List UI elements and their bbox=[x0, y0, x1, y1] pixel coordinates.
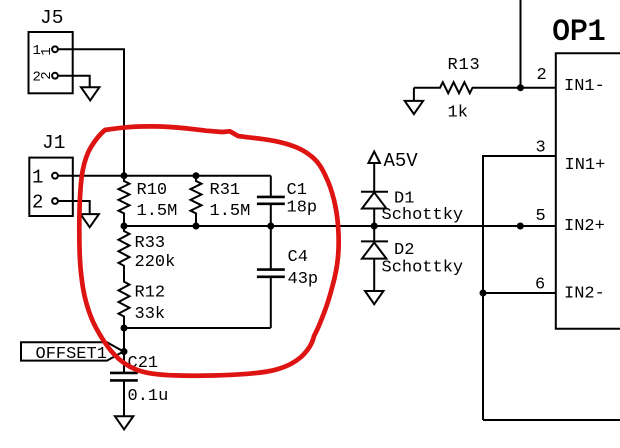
svg-text:J5: J5 bbox=[40, 7, 63, 29]
wire pin6 IN2- bbox=[483, 292, 556, 294]
svg-text:C1: C1 bbox=[287, 181, 307, 200]
svg-text:R33: R33 bbox=[135, 234, 166, 253]
resistor R33 bbox=[119, 226, 130, 278]
svg-text:220k: 220k bbox=[135, 253, 176, 272]
svg-text:IN2+: IN2+ bbox=[564, 217, 605, 236]
svg-text:1.5M: 1.5M bbox=[210, 202, 251, 221]
wire node to C21 bbox=[123, 328, 125, 373]
svg-text:3: 3 bbox=[536, 139, 546, 158]
svg-text:1k: 1k bbox=[448, 104, 468, 123]
wire J1 pin1 to node bbox=[59, 175, 124, 177]
svg-text:2: 2 bbox=[32, 192, 43, 214]
svg-text:R13: R13 bbox=[448, 56, 481, 75]
ground at R13 left bbox=[405, 88, 423, 114]
svg-text:1: 1 bbox=[39, 47, 55, 55]
capacitor C4 bbox=[257, 226, 285, 328]
junction dots bbox=[121, 172, 128, 179]
svg-text:A5V: A5V bbox=[384, 150, 419, 172]
capacitor C1 bbox=[257, 176, 285, 226]
wire J5 pin2 to ground bbox=[59, 76, 90, 88]
wire bottom loop y=328 bbox=[124, 327, 271, 329]
svg-text:6: 6 bbox=[535, 276, 545, 295]
connector J1 body bbox=[29, 158, 73, 216]
connector J5 body bbox=[29, 32, 73, 93]
J1 pin 2 circle bbox=[52, 198, 58, 204]
svg-text:IN1+: IN1+ bbox=[565, 156, 606, 175]
wire vertical into pin2 bbox=[520, 0, 522, 88]
wire J1 pin2 to ground bbox=[59, 201, 90, 214]
svg-text:1.5M: 1.5M bbox=[137, 202, 178, 221]
svg-text:0.1u: 0.1u bbox=[128, 387, 169, 406]
wire mid net y=226 bbox=[124, 225, 556, 227]
wire pin3 IN1+ bbox=[483, 156, 556, 420]
resistor R12 bbox=[119, 278, 130, 329]
diode D2 bbox=[361, 226, 388, 291]
ground at J1 pin2 bbox=[81, 214, 99, 227]
svg-text:R12: R12 bbox=[135, 284, 166, 303]
svg-text:J1: J1 bbox=[42, 132, 65, 154]
svg-text:R10: R10 bbox=[137, 181, 168, 200]
J5 pin 1 circle bbox=[52, 46, 58, 52]
resistor R13 bbox=[414, 82, 556, 93]
svg-text:Schottky: Schottky bbox=[382, 259, 464, 278]
red annotation loop bbox=[79, 126, 338, 375]
svg-text:5: 5 bbox=[536, 207, 546, 226]
svg-text:18p: 18p bbox=[287, 199, 318, 218]
diode D1 bbox=[361, 192, 388, 226]
svg-text:R31: R31 bbox=[210, 181, 241, 200]
svg-text:OP1: OP1 bbox=[552, 15, 605, 49]
svg-text:2: 2 bbox=[39, 71, 55, 79]
resistor R31 bbox=[191, 176, 202, 226]
svg-text:Schottky: Schottky bbox=[382, 206, 464, 225]
resistor R10 bbox=[119, 176, 130, 226]
svg-text:1: 1 bbox=[32, 166, 43, 188]
flag OFFSET1 bbox=[21, 342, 123, 360]
svg-text:43p: 43p bbox=[288, 270, 319, 289]
ground below C21 bbox=[115, 416, 133, 429]
wire top net y=175.7 bbox=[124, 175, 271, 177]
svg-text:OFFSET1: OFFSET1 bbox=[36, 345, 107, 364]
J5 pin 2 circle bbox=[52, 73, 58, 79]
capacitor C21 bbox=[110, 373, 138, 416]
svg-text:IN2-: IN2- bbox=[564, 285, 605, 304]
ground at J5 pin2 bbox=[81, 87, 99, 100]
svg-text:33k: 33k bbox=[135, 305, 166, 324]
svg-text:2: 2 bbox=[537, 66, 547, 85]
svg-text:D2: D2 bbox=[394, 241, 414, 260]
wire bottom right bbox=[483, 419, 620, 421]
svg-text:C4: C4 bbox=[288, 248, 308, 267]
IC OP1 box bbox=[556, 53, 620, 329]
svg-text:IN1-: IN1- bbox=[564, 77, 605, 96]
power A5V arrow bbox=[368, 152, 380, 192]
J1 pin 1 circle bbox=[52, 173, 58, 179]
ground below D2 bbox=[365, 291, 383, 304]
wire J5 pin1 to node bbox=[59, 49, 124, 175]
